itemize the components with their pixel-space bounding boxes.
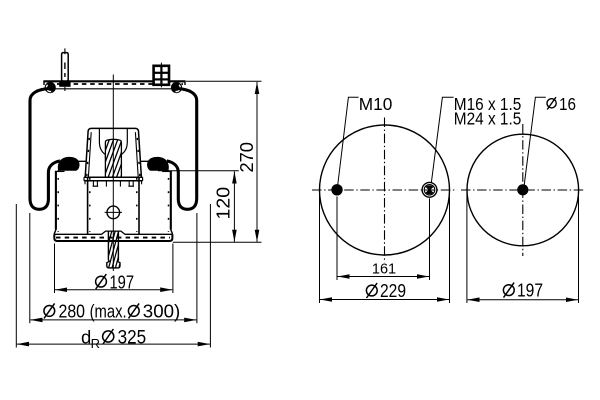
label dia197 left view <box>96 272 134 292</box>
svg-text:16: 16 <box>559 94 576 114</box>
dimension 120 <box>233 171 235 242</box>
dimension dia197 left view <box>55 289 172 291</box>
svg-text:229: 229 <box>380 281 406 301</box>
svg-text:120: 120 <box>214 187 234 220</box>
extension lines dia 197 bottom <box>54 244 56 294</box>
extension line bottom (270/120) <box>173 241 262 243</box>
svg-text:197: 197 <box>110 272 135 292</box>
svg-text:325: 325 <box>118 327 147 348</box>
svg-text:R: R <box>91 336 100 351</box>
svg-text:300): 300) <box>143 301 181 321</box>
bellows bead right <box>171 82 182 93</box>
dimension dia229 <box>320 299 449 301</box>
dimension 270 <box>256 82 258 242</box>
label dia197 right view <box>503 281 543 301</box>
svg-text:197: 197 <box>517 281 543 301</box>
piston inner body walls <box>58 161 169 234</box>
bellows outer wall right <box>167 89 197 210</box>
rubber bead blob on piston ear right <box>147 157 169 171</box>
bottom stud (hatched) <box>98 231 128 268</box>
svg-text:270: 270 <box>237 142 257 173</box>
circle 1 centerlines <box>384 118 386 263</box>
dia16 hole <box>517 184 528 195</box>
dimension dia280 <box>30 319 196 321</box>
stud bolt on top plate <box>59 48 70 91</box>
piston skirt <box>54 171 172 234</box>
leader dia16 <box>524 97 546 185</box>
circle 1 : top plate outline dia229 <box>320 125 450 255</box>
bellows bead left <box>45 82 56 93</box>
centerline of air spring <box>112 75 114 272</box>
bottom stud seat <box>102 231 125 234</box>
extension lines dR dia325 <box>15 204 17 348</box>
extension lines dia229 <box>319 192 321 303</box>
svg-text:M10: M10 <box>359 94 393 114</box>
extension lines 161 <box>336 197 338 281</box>
circle 2 : piston outline dia197 <box>467 134 579 246</box>
center mark on piston <box>105 206 122 219</box>
top plate <box>44 81 186 89</box>
bellows outer wall left <box>30 89 60 210</box>
label dia16 <box>547 94 576 114</box>
dimension 161 <box>338 276 430 278</box>
bumper cone shell <box>85 128 141 177</box>
bumper center bolt column (hatched) <box>91 139 139 177</box>
top plate rubber texture dashes <box>57 83 183 85</box>
M10 stud hole <box>331 184 342 195</box>
leader M16/M24 <box>431 97 453 183</box>
extension line piston top (120) <box>158 170 239 172</box>
svg-text:(max.: (max. <box>90 301 127 321</box>
piston top flange <box>84 177 143 184</box>
svg-text:M24 x 1.5: M24 x 1.5 <box>454 109 522 129</box>
leader M10 <box>338 97 359 186</box>
circle 2 centerlines <box>522 124 524 256</box>
rubber bead blob on piston ear left <box>58 157 80 171</box>
extension lines dia197 right view <box>466 192 468 303</box>
dimension dR dia325 <box>17 343 210 345</box>
air fitting on top plate <box>154 63 169 88</box>
label dia229 <box>366 281 406 301</box>
svg-text:161: 161 <box>372 261 396 277</box>
piston bottom plate <box>54 234 172 241</box>
svg-text:280: 280 <box>59 301 86 321</box>
extension lines dia 280 <box>29 213 31 323</box>
dimension dia197 right view <box>467 299 578 301</box>
label dR dia325 <box>81 326 146 351</box>
flange bolts <box>93 181 134 187</box>
air fitting hole M16/M24 <box>422 182 437 197</box>
extension line top (270) <box>186 80 262 82</box>
label dia280 (max.dia300) <box>44 301 180 321</box>
